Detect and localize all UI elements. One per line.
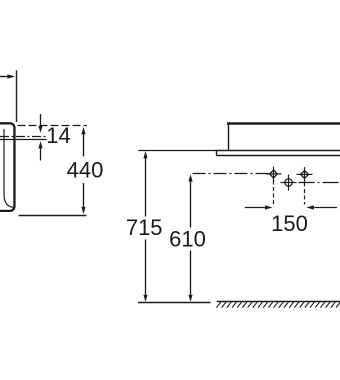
dim 610 bottom arrow [188,295,192,302]
dim 715 bottom arrow [143,295,147,302]
basin box on counter (right view, cut off at page edge) [227,124,340,151]
dim 14 lower arrow (up) [38,141,42,160]
svg-text:150: 150 [271,211,308,236]
fixing hole marker right [297,167,313,182]
basin inner contour [4,129,13,207]
floor reference line [138,302,211,304]
dim 715 top arrow [143,151,147,217]
dim 440 bottom arrow [81,207,85,214]
dimension arrow top-left (to wall) [0,74,15,78]
extension line at counter top level [138,150,217,152]
dim 440 top arrow [81,127,85,157]
basin side profile (left view, cut off at page edge) [0,123,14,211]
dim 150 left arrow [245,205,273,209]
dim 610 line lower part [190,251,192,296]
svg-text:715: 715 [126,215,163,240]
dim 14 upper arrow (down) [38,114,42,133]
dashed extension line at basin top level [18,125,88,127]
extension line at basin bottom [19,215,87,217]
extension line top-left vertical [16,70,18,122]
countertop slab [217,151,340,156]
svg-text:14: 14 [46,123,70,148]
hatched floor line [217,301,340,303]
svg-text:610: 610 [169,227,206,252]
dim 715 line lower part [145,240,147,296]
fixing hole marker left [266,167,282,182]
dash-dot centerline to right edge [299,182,340,184]
dim 150 right arrow [306,205,337,209]
dashed projection line left hole [273,181,275,206]
dim 610 top arrow [188,174,192,227]
rim lower edge line [0,139,47,141]
dash-dot extension to fixing holes axis [193,173,270,175]
dashed projection line right hole [304,183,306,205]
dim 440 line lower part [83,183,85,208]
floor hatching [216,302,340,308]
svg-text:440: 440 [67,158,104,183]
drain hole marker (circle) [281,175,297,191]
centerline of basin (dash-dot) [0,136,48,138]
